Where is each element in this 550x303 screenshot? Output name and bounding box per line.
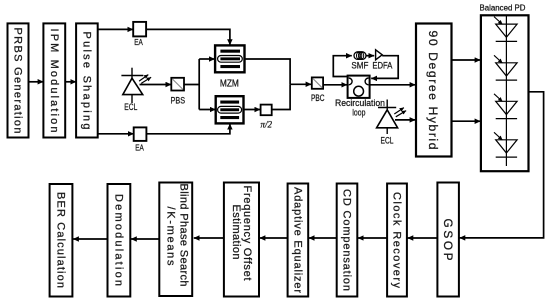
- svg-text:Demodulation: Demodulation: [113, 194, 125, 286]
- svg-text:PBC: PBC: [311, 93, 325, 103]
- wire loop return to box: [371, 56, 398, 79]
- wire IPM to Pulse Shaping: [65, 81, 76, 83]
- wire into upper MZM: [199, 58, 215, 60]
- svg-text:ECL: ECL: [381, 135, 394, 145]
- wire Pulse Shaping to upper EA: [98, 28, 134, 30]
- svg-text:MZM: MZM: [220, 78, 239, 89]
- svg-text:Balanced PD: Balanced PD: [480, 2, 526, 12]
- block Balanced PD: [481, 15, 529, 171]
- wire Pulse Shaping to lower EA: [98, 133, 134, 135]
- wire PD output down to GSOP: [460, 92, 544, 238]
- combiner PBC: [311, 77, 325, 102]
- wire lower EA to lower MZM bottom: [146, 124, 230, 134]
- wire PBC to recirculation loop: [323, 84, 347, 86]
- svg-text:loop: loop: [352, 107, 365, 117]
- wire PRBS to IPM: [29, 81, 44, 83]
- fiber spool SMF: [351, 52, 368, 71]
- wire PBS split to both MZM inputs: [184, 59, 199, 110]
- wire recirculation loop to hybrid: [370, 84, 416, 86]
- photodiode string wire: [505, 15, 507, 166]
- wire upper EA to upper MZM top: [146, 29, 230, 45]
- splitter PBS: [171, 78, 186, 106]
- svg-text:SMF: SMF: [351, 60, 368, 70]
- wire Demodulation to BER Calculation: [73, 238, 107, 240]
- block PRBS Generation: [8, 23, 29, 137]
- svg-text:EA: EA: [135, 142, 144, 152]
- wire SMF to EDFA: [366, 55, 374, 57]
- block Pulse Shaping: [76, 23, 98, 137]
- svg-text:Clock Recovery: Clock Recovery: [391, 192, 403, 289]
- wire Blind Phase Search to Demodulation: [131, 238, 159, 240]
- phase shifter pi/2: [261, 105, 273, 130]
- block Adaptive Equalizer: [288, 184, 309, 297]
- wire hybrid to PD (lower): [452, 120, 481, 122]
- wire Adaptive Equalizer to Frequency Offset Estimation: [260, 237, 288, 239]
- block Demodulation: [108, 184, 131, 297]
- photodiode D4: [494, 132, 517, 157]
- wire Frequency Offset Estimation to Blind Phase Search: [194, 237, 224, 239]
- wire hybrid to PD (upper): [452, 59, 481, 61]
- wire GSOP to Clock Recovery: [408, 237, 438, 239]
- wire ECL to PBS: [140, 84, 172, 86]
- svg-text:EA: EA: [134, 37, 143, 47]
- amplifier EDFA: [372, 50, 393, 71]
- modulator MZM (lower): [216, 96, 244, 123]
- amplifier EA (lower): [134, 127, 147, 152]
- block BER Calculation: [50, 184, 73, 297]
- svg-text:PBS: PBS: [171, 95, 186, 105]
- wire into lower MZM: [199, 109, 215, 111]
- laser ECL (local oscillator): [377, 100, 407, 146]
- modulator MZM (upper): [215, 45, 244, 72]
- svg-text:EDFA: EDFA: [372, 60, 393, 70]
- wire junction to PBC: [290, 83, 311, 85]
- wire ECL to hybrid: [395, 119, 415, 121]
- photodiode D3: [494, 94, 517, 119]
- wire Clock Recovery to CD Compensation: [358, 237, 387, 239]
- wire loop left riser: [333, 56, 352, 77]
- wire upper MZM output: [245, 59, 291, 84]
- wire CD Compensation to Adaptive Equalizer: [309, 237, 337, 239]
- svg-text:π/2: π/2: [261, 120, 273, 130]
- block GSOP: [437, 183, 459, 297]
- switch recirculation loop box: [335, 76, 385, 118]
- amplifier EA (upper): [133, 22, 146, 47]
- block 90 Degree Hybrid: [416, 24, 452, 157]
- svg-text:Adaptive Equalizer: Adaptive Equalizer: [292, 187, 304, 293]
- svg-text:Pulse Shaping: Pulse Shaping: [81, 32, 93, 130]
- wire lower MZM to pi/2: [244, 109, 261, 111]
- photodiode D2: [494, 55, 517, 80]
- wire pi/2 output joining upper branch: [272, 84, 290, 109]
- svg-text:CD Compensation: CD Compensation: [341, 189, 353, 291]
- svg-text:PRBS Generation: PRBS Generation: [12, 28, 24, 134]
- block Clock Recovery: [387, 184, 407, 297]
- svg-text:/K-means: /K-means: [165, 207, 177, 267]
- laser ECL (transmitter): [121, 68, 151, 112]
- svg-text:Blind Phase Search: Blind Phase Search: [178, 184, 190, 287]
- block Blind Phase Search /K-means: [159, 183, 192, 297]
- block CD Compensation: [337, 184, 358, 297]
- photodiode D1: [494, 17, 517, 42]
- block Frequency Offset Estimation: [224, 183, 259, 297]
- svg-text:Estimation: Estimation: [230, 205, 242, 260]
- svg-text:ECL: ECL: [124, 102, 137, 112]
- block IPM Modulation: [43, 23, 65, 137]
